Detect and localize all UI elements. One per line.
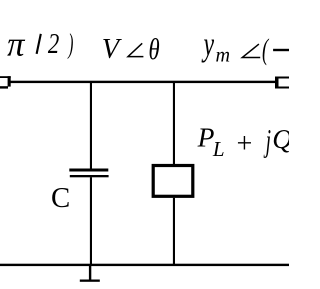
wire bottom bus — [0, 264, 289, 266]
svg-text:m: m — [216, 44, 231, 66]
angle symbol 1 — [128, 43, 143, 56]
label y — [201, 27, 215, 64]
wire load branch upper — [173, 82, 175, 164]
label V — [102, 34, 123, 65]
svg-text:C: C — [51, 182, 70, 214]
label theta — [148, 32, 159, 66]
label P — [197, 121, 215, 152]
label open paren — [262, 34, 269, 66]
angle symbol 2 — [242, 44, 260, 57]
svg-text:L: L — [212, 137, 225, 161]
label pi / 2) — [7, 26, 73, 64]
wire load branch lower — [173, 198, 175, 264]
terminal left (sending-end port) — [0, 76, 11, 88]
label L subscript — [212, 137, 225, 161]
wire top bus — [10, 81, 275, 83]
label C — [51, 182, 70, 214]
load box PL+jQL — [153, 166, 193, 197]
wire capacitor branch lower — [90, 177, 92, 264]
svg-text:P: P — [197, 121, 215, 152]
terminal right (receiving-end port) — [275, 77, 289, 89]
svg-text:Q: Q — [272, 123, 289, 154]
svg-text:): ) — [67, 28, 73, 59]
svg-text:2: 2 — [48, 28, 60, 60]
label Q — [272, 123, 292, 154]
svg-text:+: + — [235, 129, 254, 160]
label j — [263, 122, 271, 158]
capacitor C plates — [69, 169, 108, 178]
ground bar — [80, 280, 100, 282]
wire capacitor branch upper — [90, 82, 92, 169]
label plus — [235, 129, 254, 160]
label minus sign — [273, 49, 290, 51]
svg-text:y: y — [201, 27, 215, 64]
svg-text:π: π — [7, 26, 26, 64]
label m subscript — [216, 44, 231, 66]
ground stub — [89, 265, 91, 281]
svg-text:θ: θ — [148, 32, 159, 66]
